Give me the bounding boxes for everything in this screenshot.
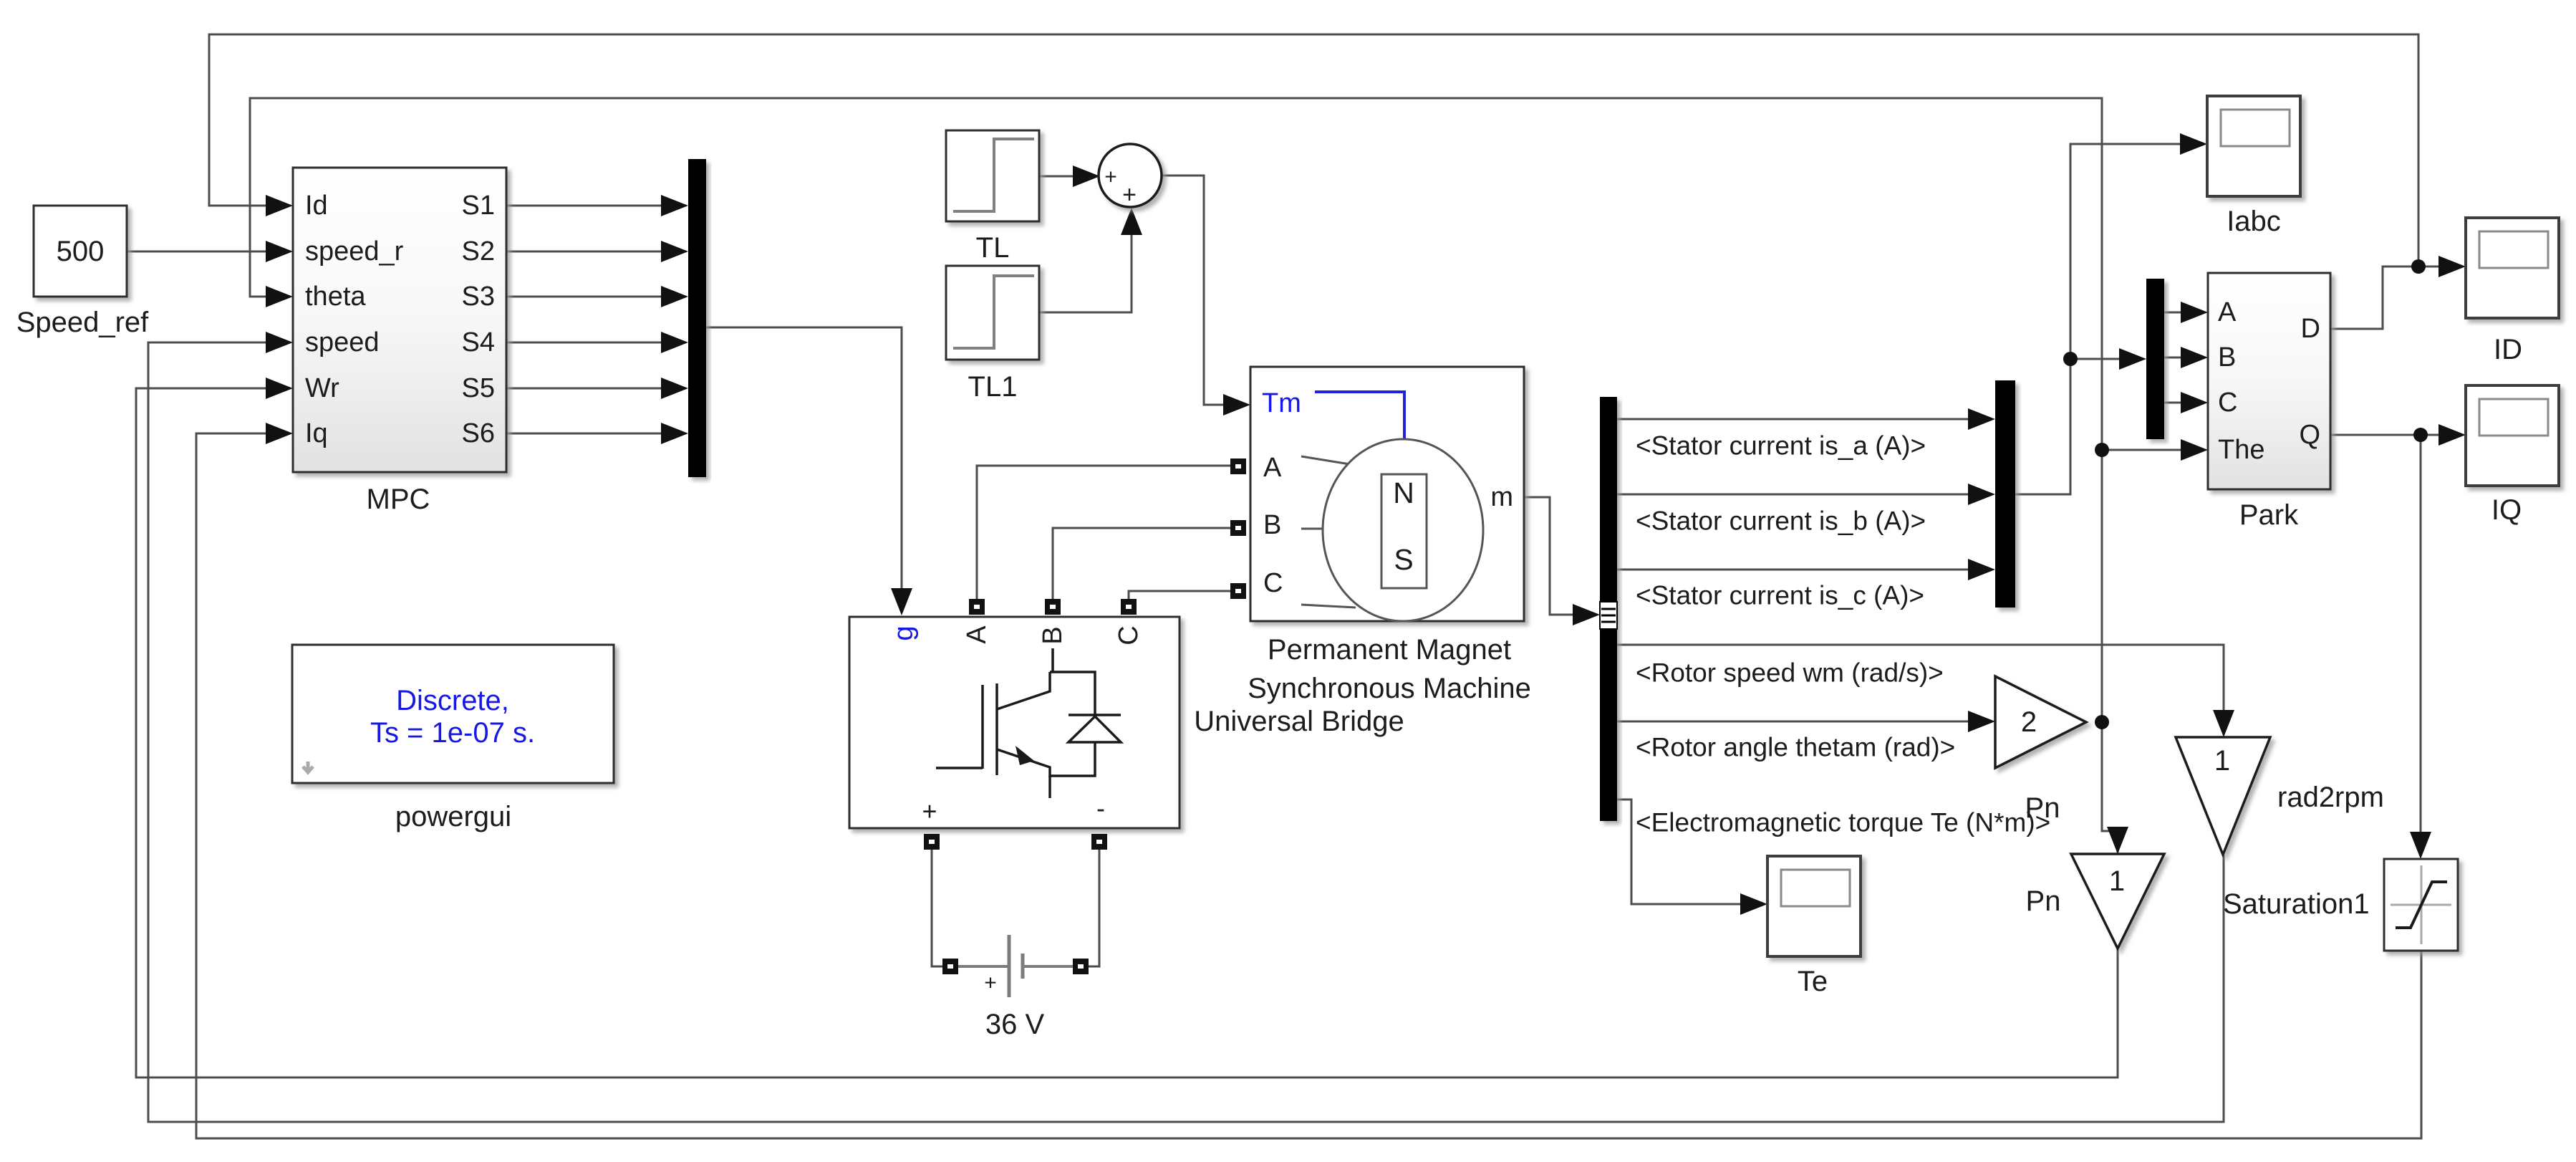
node D/ID junction — [2411, 259, 2426, 274]
svg-text:+: + — [922, 797, 937, 826]
node Q/IQ junction — [2413, 428, 2428, 442]
arrowheads into mux2 — [1968, 408, 1995, 430]
svg-text:S3: S3 — [462, 282, 495, 312]
wire is_a to mux2 — [1617, 418, 1969, 421]
svg-text:S4: S4 — [462, 327, 495, 357]
svg-text:Te: Te — [1798, 966, 1828, 997]
svg-text:+: + — [984, 971, 997, 995]
svg-text:Park: Park — [2239, 499, 2299, 531]
wire bridge A to machine A — [977, 466, 1230, 603]
arrowhead bridge g — [891, 588, 912, 615]
svg-text:500: 500 — [57, 236, 105, 267]
arrowhead TL1 into sum — [1121, 208, 1142, 235]
subsystem MPC — [293, 168, 506, 515]
wire demux to Park B — [2164, 357, 2182, 359]
svg-text:-: - — [1096, 794, 1105, 823]
svg-text:Iabc: Iabc — [2227, 206, 2281, 237]
svg-text:N: N — [1393, 476, 1414, 509]
svg-text:Permanent Magnet: Permanent Magnet — [1268, 634, 1511, 666]
svg-text:powergui: powergui — [395, 801, 511, 832]
arrowhead into Iabc scope — [2180, 133, 2207, 155]
wire rotor speed wm to rad2rpm — [1617, 645, 2224, 713]
arrowhead into demux — [2119, 348, 2146, 370]
wire bridge minus to battery — [1088, 850, 1099, 966]
step TL — [946, 130, 1039, 264]
svg-text:36 V: 36 V — [985, 1009, 1045, 1040]
wire Pn gain output down to Pn triangle — [2102, 722, 2118, 853]
constant Speed_ref 500 — [16, 206, 149, 338]
node The branch — [2095, 443, 2109, 457]
universal bridge block — [849, 617, 1404, 828]
PMSM block — [1248, 367, 1531, 704]
arrowhead into Te scope — [1740, 893, 1767, 915]
wire demux to Park A — [2164, 312, 2182, 314]
wire S3 to mux — [506, 296, 664, 298]
svg-text:MPC: MPC — [367, 484, 430, 515]
wire torque Te to scope — [1617, 800, 1742, 904]
svg-text:+: + — [1104, 165, 1117, 189]
svg-text:B: B — [1038, 626, 1068, 644]
gain Pn (1) down — [2026, 854, 2164, 949]
svg-text:rad2rpm: rad2rpm — [2277, 782, 2384, 813]
arrowhead into Saturation1 — [2410, 832, 2431, 859]
bridge top port squares — [969, 599, 985, 615]
wire S2 to mux — [506, 251, 664, 253]
wire Id feedback (top line from ID junction to MPC Id) — [209, 34, 2418, 267]
svg-text:<Stator current is_b (A)>: <Stator current is_b (A)> — [1636, 506, 1926, 536]
svg-text:1: 1 — [2214, 745, 2230, 777]
svg-text:Wr: Wr — [305, 373, 339, 403]
wire mux output to bridge g — [706, 327, 902, 591]
svg-text:A: A — [1263, 453, 1282, 483]
scope Iabc — [2207, 96, 2300, 237]
svg-text:<Rotor angle thetam (rad)>: <Rotor angle thetam (rad)> — [1636, 733, 1955, 762]
svg-text:speed_r: speed_r — [305, 236, 404, 267]
gain Pn (2) — [1995, 676, 2086, 824]
svg-text:Synchronous Machine: Synchronous Machine — [1248, 673, 1531, 704]
svg-text:A: A — [2218, 297, 2237, 327]
wire Park D to ID scope — [2330, 267, 2440, 329]
wire bridge B to machine B — [1053, 528, 1230, 603]
svg-text:IQ: IQ — [2491, 494, 2522, 526]
wire bridge C to machine C — [1129, 591, 1230, 603]
bus selector — [1600, 397, 1617, 821]
bridge bottom port squares — [924, 834, 940, 850]
wire speed feedback (rad2rpm output to MPC speed) — [148, 342, 2224, 1122]
svg-text:B: B — [1263, 510, 1281, 540]
arrowhead into Pn down triangle — [2107, 827, 2128, 854]
svg-text:The: The — [2218, 435, 2264, 465]
arrowheads into MPC inputs — [266, 195, 293, 216]
wire Wr feedback (Pn output to MPC Wr) — [136, 388, 2118, 1077]
arrowhead into rad2rpm — [2213, 710, 2234, 737]
svg-text:Discrete,: Discrete, — [396, 685, 509, 716]
svg-text:S2: S2 — [462, 236, 495, 267]
mux Mux1 — [688, 159, 706, 477]
svg-text:C: C — [1263, 568, 1283, 598]
arrowhead into Pn gain — [1968, 711, 1995, 732]
sum block — [1099, 144, 1162, 208]
battery 36 V — [942, 935, 1089, 1040]
wire bridge plus to battery — [932, 850, 942, 966]
wire mux2 output to Iabc scope — [2015, 144, 2181, 494]
wire rotor angle thetam to Pn gain — [1617, 721, 1969, 723]
wire demux to Park C — [2164, 402, 2182, 404]
wire Q branch down to Saturation1 — [2420, 435, 2422, 833]
svg-text:+: + — [1122, 181, 1137, 208]
svg-text:TL1: TL1 — [968, 371, 1018, 403]
svg-text:2: 2 — [2021, 706, 2037, 738]
gain rad2rpm (1) down — [2176, 737, 2384, 855]
svg-text:1: 1 — [2109, 865, 2125, 897]
svg-text:D: D — [2301, 314, 2320, 344]
svg-text:TL: TL — [976, 232, 1010, 264]
wire Iq feedback (Saturation1 output to MPC Iq) — [196, 433, 2421, 1138]
svg-text:Pn: Pn — [2025, 792, 2060, 824]
svg-text:Saturation1: Saturation1 — [2223, 888, 2370, 920]
svg-text:Iq: Iq — [305, 418, 328, 448]
saturation Saturation1 — [2223, 859, 2458, 951]
svg-text:C: C — [2218, 388, 2237, 418]
svg-text:S5: S5 — [462, 373, 495, 403]
demux — [2146, 279, 2164, 439]
svg-text:Tm: Tm — [1262, 388, 1301, 418]
wire S1 to mux — [506, 205, 664, 207]
svg-text:Universal Bridge: Universal Bridge — [1194, 706, 1404, 737]
svg-text:<Electromagnetic torque Te (N*: <Electromagnetic torque Te (N*m)> — [1636, 808, 2050, 837]
arrowhead into bus selector — [1573, 604, 1600, 625]
svg-text:S6: S6 — [462, 418, 495, 448]
PMSM port squares — [1230, 458, 1246, 474]
subsystem Park — [2208, 273, 2330, 531]
svg-text:Id: Id — [305, 191, 328, 221]
wire sum to Tm — [1162, 176, 1226, 405]
arrowhead into Tm — [1223, 394, 1250, 416]
svg-text:S: S — [1394, 543, 1413, 576]
svg-text:ID: ID — [2494, 334, 2522, 365]
node mux2 output branch — [2063, 352, 2078, 366]
wire branch to demux — [2070, 358, 2121, 360]
wire is_c to mux2 — [1617, 569, 1969, 571]
svg-text:Q: Q — [2299, 420, 2320, 450]
wire theta feedback (from Pn gain output up over to MPC theta) — [250, 98, 2102, 722]
wire S6 to mux — [506, 433, 664, 435]
wire theta branch to Park The — [2102, 449, 2182, 451]
step TL1 — [946, 266, 1039, 403]
svg-text:speed: speed — [305, 327, 380, 357]
svg-text:S1: S1 — [462, 191, 495, 221]
scope Te — [1767, 856, 1861, 997]
svg-text:Ts = 1e-07 s.: Ts = 1e-07 s. — [370, 717, 535, 749]
svg-text:C: C — [1114, 625, 1144, 645]
svg-text:Pn: Pn — [2026, 885, 2061, 917]
svg-text:Speed_ref: Speed_ref — [16, 307, 149, 338]
wire TL1 to sum — [1039, 231, 1132, 312]
scope IQ — [2466, 385, 2559, 526]
scope ID — [2466, 218, 2559, 365]
svg-text:theta: theta — [305, 282, 366, 312]
powergui block — [292, 645, 614, 832]
wire machine m to bus selector — [1524, 497, 1577, 615]
svg-text:A: A — [962, 625, 992, 644]
node Pn gain output — [2095, 715, 2109, 729]
wire TL to sum — [1039, 176, 1074, 178]
svg-text:<Stator current is_c (A)>: <Stator current is_c (A)> — [1636, 581, 1924, 610]
wire Park Q to IQ scope — [2330, 434, 2440, 436]
arrowhead into ID scope — [2438, 256, 2466, 277]
arrowheads into mux — [661, 195, 688, 216]
arrowheads into Park — [2181, 302, 2208, 323]
wire S5 to mux — [506, 388, 664, 390]
svg-text:m: m — [1490, 482, 1513, 512]
arrowhead TL into sum — [1073, 165, 1100, 187]
svg-text:B: B — [2218, 342, 2236, 373]
svg-text:g: g — [889, 625, 919, 640]
arrowhead into IQ scope — [2438, 424, 2466, 446]
wire S4 to mux — [506, 342, 664, 344]
svg-text:<Stator current is_a (A)>: <Stator current is_a (A)> — [1636, 431, 1926, 461]
wire is_b to mux2 — [1617, 494, 1969, 496]
svg-text:<Rotor speed wm (rad/s)>: <Rotor speed wm (rad/s)> — [1636, 658, 1944, 688]
mux Mux2 — [1995, 380, 2015, 608]
wire Speed_ref to speed_r — [127, 251, 269, 253]
